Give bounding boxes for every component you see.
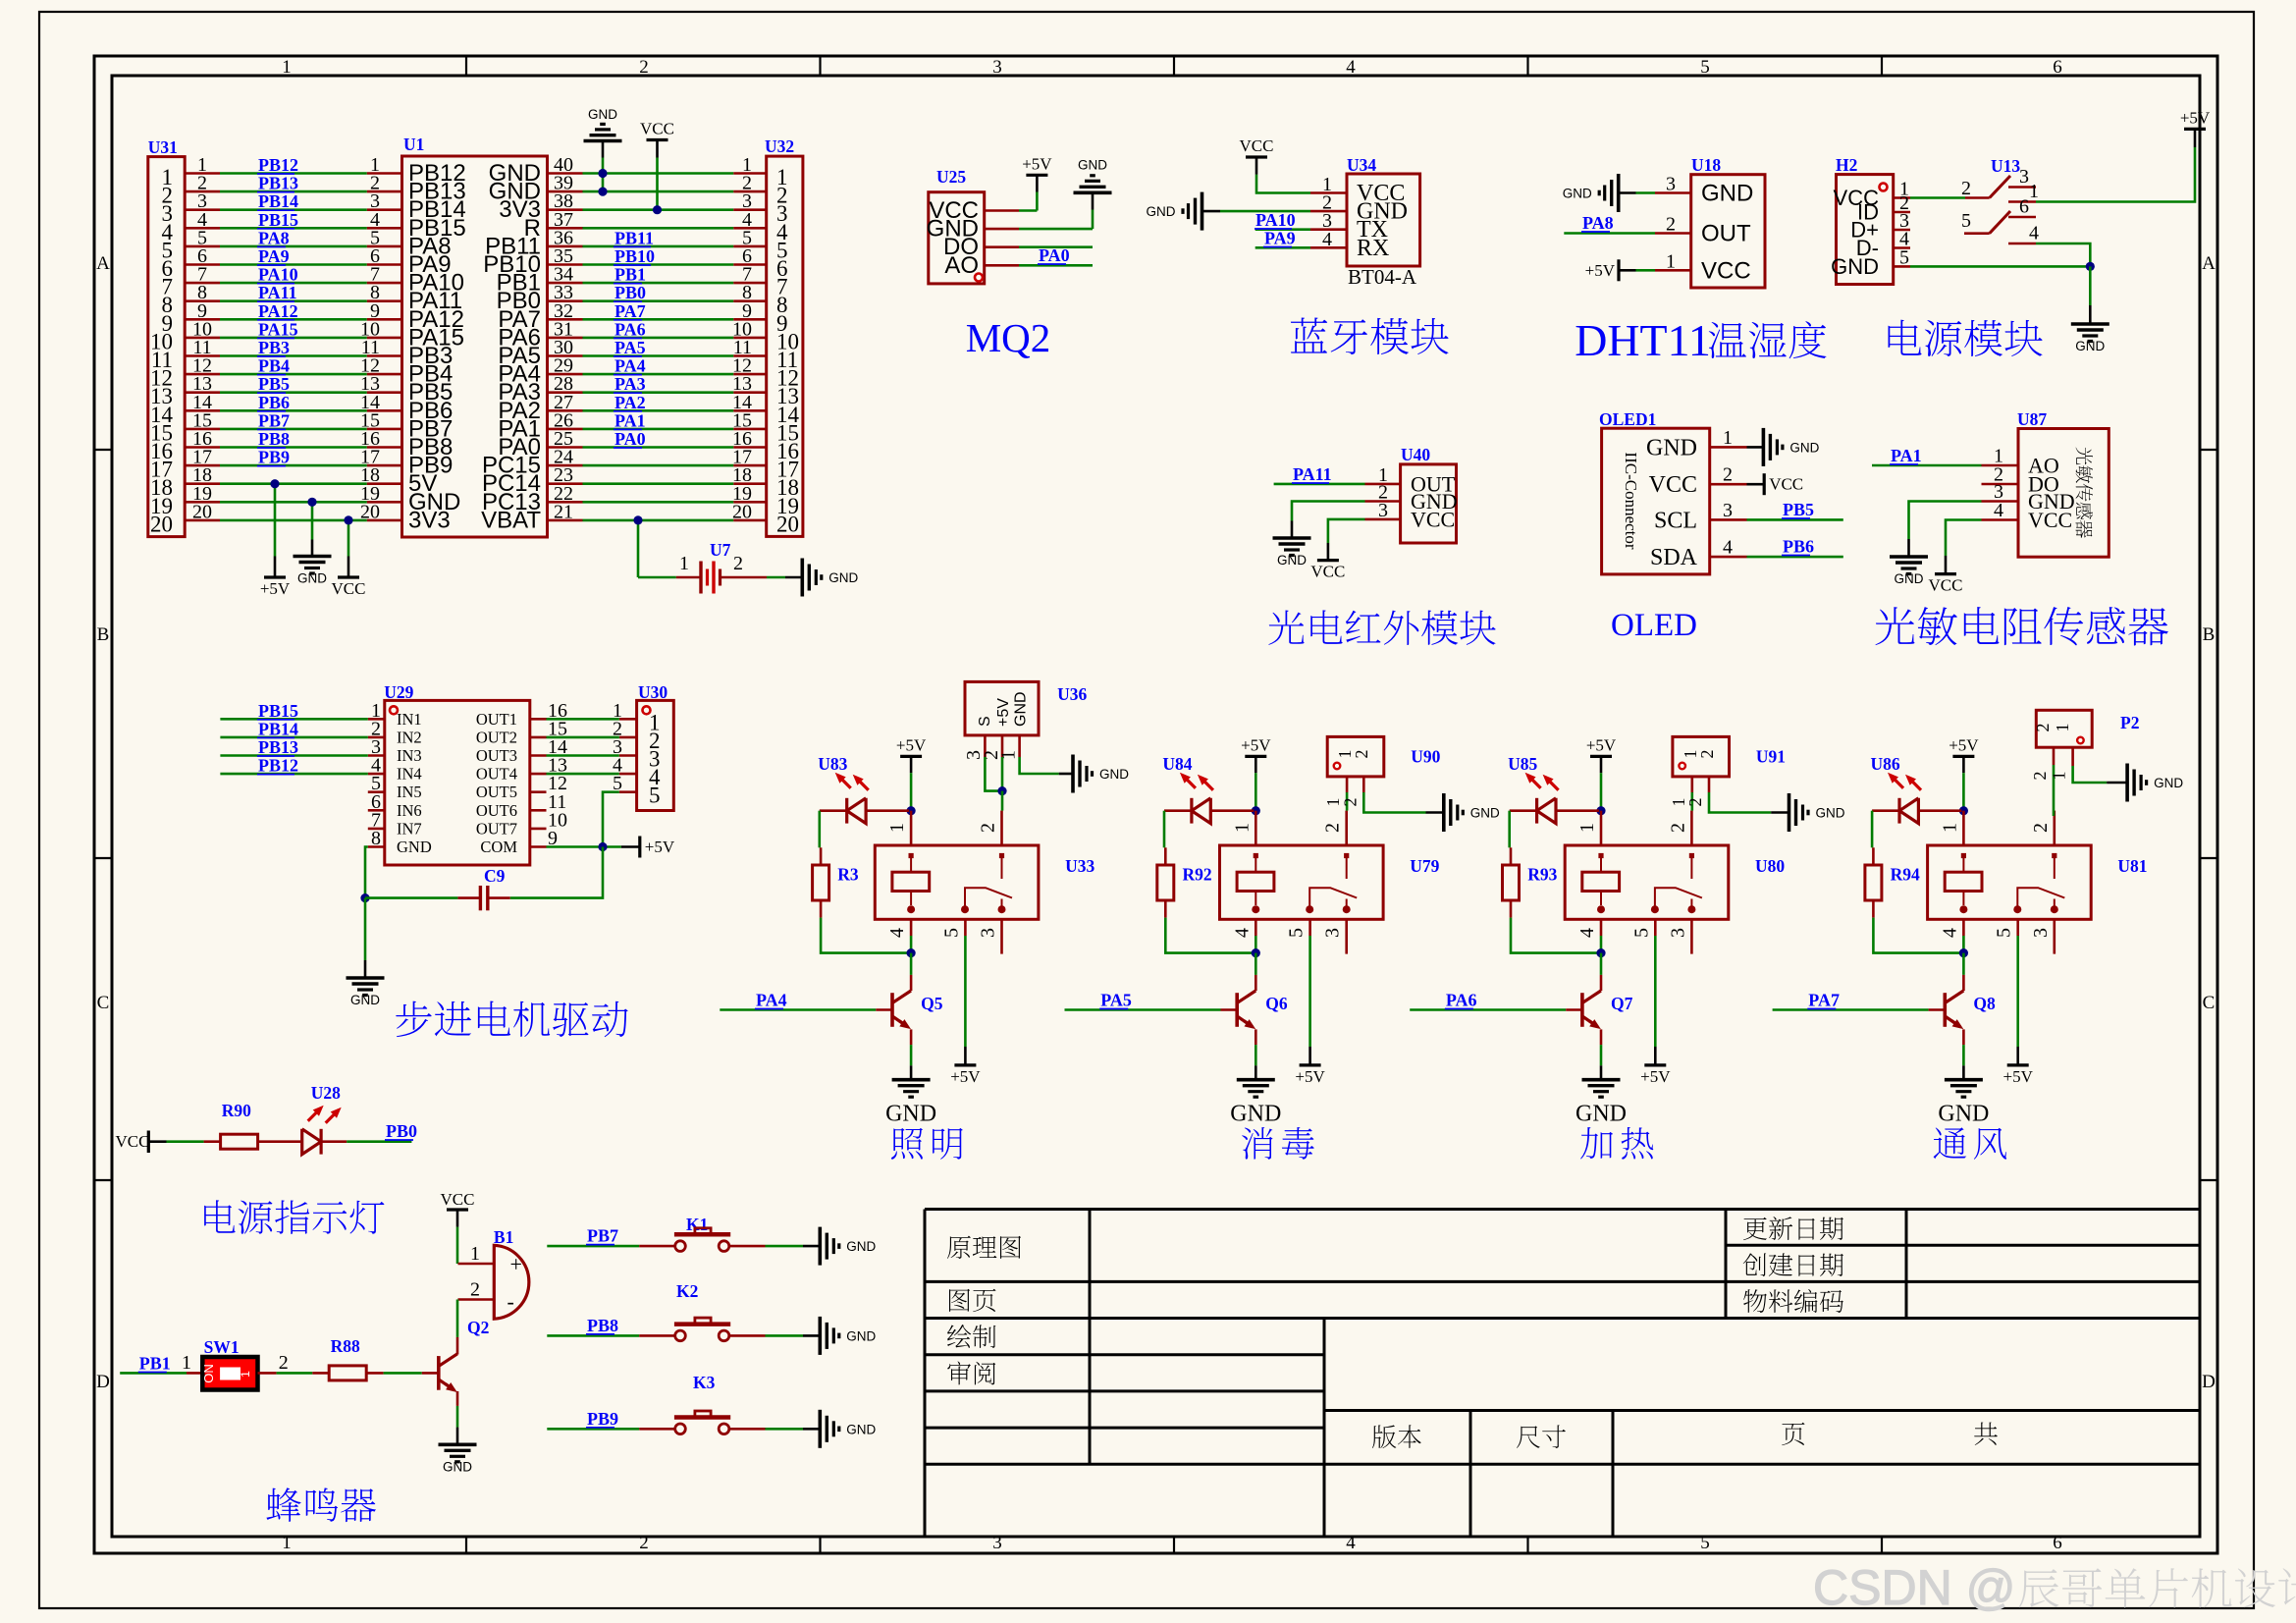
U87 pin 1 AO bbox=[1982, 464, 2019, 467]
LED anode lead bbox=[866, 809, 909, 812]
wire bbox=[547, 845, 621, 848]
ground bbox=[803, 1245, 820, 1248]
wire bbox=[1163, 811, 1166, 848]
power port VCC bbox=[647, 138, 668, 141]
svg-text:1: 1 bbox=[679, 553, 689, 574]
wire bbox=[456, 1406, 459, 1428]
U13 pin 6 bbox=[2008, 216, 2036, 219]
svg-text:PA10: PA10 bbox=[1255, 210, 1296, 230]
U31 pin 4 bbox=[185, 227, 220, 230]
svg-text:PA3: PA3 bbox=[614, 374, 646, 394]
svg-text:OUT7: OUT7 bbox=[476, 819, 517, 838]
power port VCC bbox=[1763, 473, 1766, 495]
svg-text:GND: GND bbox=[1575, 1102, 1627, 1127]
svg-text:OUT5: OUT5 bbox=[476, 783, 517, 801]
zone tick bbox=[465, 56, 467, 76]
U29 pin 11 OUT6 bbox=[530, 809, 547, 812]
svg-text:U1: U1 bbox=[403, 135, 424, 154]
svg-text:H2: H2 bbox=[1836, 155, 1857, 175]
relay U79 bbox=[1220, 845, 1384, 919]
relay contact bbox=[1001, 858, 1003, 879]
svg-text:3: 3 bbox=[1723, 500, 1733, 521]
U1 pin 3 PB14 bbox=[367, 208, 402, 211]
U1 pin 36 PB11 bbox=[548, 245, 583, 248]
zone tick bbox=[1881, 56, 1883, 76]
svg-text:GND: GND bbox=[588, 107, 617, 122]
wire bbox=[1001, 757, 1004, 791]
U29 pin 8 GND bbox=[368, 845, 385, 848]
svg-text:+5V: +5V bbox=[1585, 261, 1616, 280]
svg-text:+: + bbox=[510, 1252, 522, 1276]
svg-text:R88: R88 bbox=[331, 1336, 360, 1356]
svg-text:2: 2 bbox=[2033, 724, 2053, 732]
LED anode lead bbox=[1210, 809, 1254, 812]
svg-text:OLED1: OLED1 bbox=[1599, 409, 1656, 429]
U1 pin 7 PA10 bbox=[367, 282, 402, 285]
U18 pin 3 GND bbox=[1655, 191, 1691, 194]
wire bbox=[821, 918, 909, 953]
U29 pin 9 COM bbox=[530, 845, 547, 848]
svg-text:Q8: Q8 bbox=[1973, 994, 1996, 1013]
svg-text:-: - bbox=[507, 1289, 514, 1314]
svg-text:U79: U79 bbox=[1410, 856, 1439, 876]
U31 pin 17 bbox=[185, 464, 220, 467]
junction bbox=[653, 205, 662, 214]
svg-text:PB11: PB11 bbox=[614, 228, 654, 247]
ground bbox=[892, 1078, 931, 1082]
svg-text:BT04-A: BT04-A bbox=[1348, 265, 1417, 289]
svg-text:2: 2 bbox=[2030, 772, 2050, 781]
ground bbox=[1442, 793, 1446, 832]
relay pin 5 bbox=[964, 919, 967, 936]
svg-text:U91: U91 bbox=[1756, 747, 1786, 767]
U1 pin 37 R bbox=[548, 227, 583, 230]
U31 pin 15 bbox=[185, 428, 220, 431]
U31 pin 20 bbox=[185, 519, 220, 522]
svg-text:CSDN @: CSDN @ bbox=[1813, 1560, 2015, 1615]
U40 pin 2 GND bbox=[1365, 500, 1401, 503]
svg-text:20: 20 bbox=[192, 501, 212, 522]
power port +5V bbox=[1300, 1063, 1321, 1066]
LED anode lead bbox=[1556, 809, 1599, 812]
wire bbox=[1962, 936, 1965, 953]
U13 arm bbox=[1990, 211, 2010, 234]
svg-text:2: 2 bbox=[470, 1279, 480, 1301]
svg-text:P2: P2 bbox=[2120, 713, 2139, 732]
wire bbox=[1308, 936, 1311, 1047]
LED cathode lead bbox=[1164, 809, 1192, 812]
svg-text:3V3: 3V3 bbox=[408, 507, 451, 533]
sensor U18 (DHT11) bbox=[1691, 175, 1765, 288]
junction bbox=[633, 515, 642, 524]
wire bbox=[547, 754, 619, 757]
junction bbox=[360, 893, 369, 902]
U87 pin 3 GND bbox=[1982, 500, 2019, 503]
svg-text:U85: U85 bbox=[1508, 754, 1537, 774]
relay pin 4 bbox=[1962, 919, 1965, 936]
title block text 创建日期 bbox=[1743, 1253, 1843, 1276]
svg-text:U81: U81 bbox=[2117, 856, 2147, 876]
wire bbox=[910, 936, 913, 953]
title block text 页 bbox=[1782, 1423, 1804, 1445]
svg-text:4: 4 bbox=[1231, 928, 1253, 938]
svg-text:GND: GND bbox=[1277, 553, 1307, 568]
svg-text:PB13: PB13 bbox=[258, 174, 298, 193]
U32 pin 15 bbox=[733, 428, 767, 431]
U1 pin 10 PA15 bbox=[367, 337, 402, 340]
U1 pin 28 PA3 bbox=[548, 391, 583, 394]
wire bbox=[1328, 519, 1365, 543]
svg-text:1: 1 bbox=[1576, 823, 1598, 833]
power port +5V bbox=[1952, 755, 1974, 758]
svg-text:PA12: PA12 bbox=[258, 301, 298, 321]
U91 pin 1 bbox=[1691, 777, 1694, 792]
power port +5V bbox=[264, 575, 286, 578]
power port VCC bbox=[1935, 572, 1956, 575]
transistor Q8 bbox=[1944, 993, 1948, 1027]
svg-text:PB15: PB15 bbox=[258, 701, 298, 721]
H2 pin 3 D+ bbox=[1894, 229, 1910, 232]
wire bbox=[1872, 464, 1982, 467]
IC U29 bbox=[385, 700, 530, 865]
U1 pin 25 PA0 bbox=[548, 446, 583, 449]
svg-text:GND: GND bbox=[846, 1422, 876, 1436]
svg-text:GND: GND bbox=[1099, 767, 1129, 782]
svg-text:1: 1 bbox=[1939, 823, 1960, 833]
relay pin 2 lead bbox=[1000, 811, 1003, 845]
ground bbox=[1074, 191, 1112, 195]
U1 pin 34 PB1 bbox=[548, 282, 583, 285]
wire bbox=[1747, 518, 1843, 521]
svg-text:1: 1 bbox=[470, 1243, 480, 1265]
svg-text:MQ2: MQ2 bbox=[966, 315, 1051, 360]
lead bbox=[367, 1372, 384, 1375]
pin1 marker bbox=[1679, 763, 1685, 770]
U32 pin 10 bbox=[733, 337, 767, 340]
svg-text:OUT: OUT bbox=[1701, 221, 1751, 247]
svg-text:R92: R92 bbox=[1183, 865, 1212, 885]
wire bbox=[220, 263, 367, 266]
power port VCC bbox=[1317, 559, 1339, 562]
zone tick bbox=[1173, 56, 1175, 76]
svg-text:PA0: PA0 bbox=[614, 429, 646, 449]
svg-text:3: 3 bbox=[1322, 928, 1344, 938]
ground bbox=[2071, 322, 2109, 326]
title bbox=[1876, 607, 2168, 646]
wire bbox=[547, 773, 619, 776]
wire bbox=[2089, 266, 2092, 305]
U1 pin 17 PB9 bbox=[367, 464, 402, 467]
wire bbox=[2016, 936, 2019, 1047]
U1 pin 1 PB12 bbox=[367, 172, 402, 175]
wire bbox=[1600, 936, 1603, 953]
svg-text:GND: GND bbox=[846, 1239, 876, 1254]
svg-text:5: 5 bbox=[1961, 210, 1971, 232]
U29 pin 14 OUT3 bbox=[530, 754, 547, 757]
U32 pin 12 bbox=[733, 373, 767, 376]
U25 pin AO bbox=[985, 264, 1019, 267]
U32 pin 1 bbox=[733, 172, 767, 175]
title block text 更新日期 bbox=[1743, 1217, 1843, 1240]
svg-text:PB9: PB9 bbox=[587, 1409, 618, 1429]
svg-text:+5V: +5V bbox=[2003, 1067, 2034, 1086]
svg-text:GND: GND bbox=[297, 571, 327, 586]
U1 pin 4 PB15 bbox=[367, 227, 402, 230]
title bbox=[1291, 318, 1449, 355]
svg-text:U13: U13 bbox=[1991, 156, 2020, 176]
relay contact bbox=[1346, 858, 1348, 879]
lead bbox=[1962, 975, 1965, 991]
title block text 绘制 bbox=[947, 1325, 995, 1348]
svg-text:AO: AO bbox=[944, 252, 979, 279]
svg-text:3: 3 bbox=[992, 1533, 1002, 1553]
ground bbox=[294, 555, 332, 559]
svg-text:VCC: VCC bbox=[2028, 508, 2072, 532]
U1 pin 21 VBAT bbox=[548, 519, 583, 522]
ground bbox=[1059, 773, 1073, 776]
lead bbox=[876, 1008, 892, 1011]
relay U33 bbox=[875, 845, 1039, 919]
svg-text:2: 2 bbox=[1723, 464, 1733, 486]
svg-text:A: A bbox=[2202, 253, 2216, 274]
resistor R3 bbox=[813, 865, 829, 900]
wire bbox=[964, 936, 967, 1047]
U32 pin 3 bbox=[733, 208, 767, 211]
svg-text:PA7: PA7 bbox=[1808, 991, 1840, 1010]
svg-text:PA8: PA8 bbox=[258, 228, 290, 247]
svg-text:VCC: VCC bbox=[1701, 257, 1751, 284]
U1 pin 35 PB10 bbox=[548, 263, 583, 266]
svg-text:PB6: PB6 bbox=[1783, 537, 1814, 557]
lead bbox=[187, 1372, 202, 1375]
svg-text:5: 5 bbox=[1994, 928, 2015, 938]
power +5V bbox=[2016, 1047, 2019, 1065]
U1 pin 24 PC15 bbox=[548, 464, 583, 467]
U32 pin 7 bbox=[733, 282, 767, 285]
wire bbox=[910, 773, 913, 811]
power +5V bbox=[274, 557, 277, 578]
U13 pin 4 bbox=[2008, 243, 2036, 245]
U29 pin 2 IN2 bbox=[368, 736, 385, 739]
U32 pin 17 bbox=[733, 464, 767, 467]
svg-text:ON: ON bbox=[201, 1364, 216, 1383]
ground bbox=[1762, 428, 1766, 466]
power +5V bbox=[1308, 1047, 1311, 1065]
title block text 原理图 bbox=[947, 1236, 1021, 1259]
svg-text:U33: U33 bbox=[1065, 856, 1095, 876]
IC U1 bbox=[402, 156, 548, 537]
title block text 图页 bbox=[949, 1289, 996, 1312]
U32 pin 8 bbox=[733, 299, 767, 302]
ground bbox=[1273, 536, 1311, 540]
svg-text:R94: R94 bbox=[1891, 865, 1920, 885]
U87 pin 2 DO bbox=[1982, 483, 2019, 486]
svg-text:2: 2 bbox=[1961, 178, 1971, 199]
U31 pin 1 bbox=[185, 172, 220, 175]
wire bbox=[583, 227, 734, 230]
svg-text:VCC: VCC bbox=[640, 120, 674, 138]
ground bbox=[364, 960, 367, 978]
wire bbox=[1019, 245, 1093, 248]
wire bbox=[583, 337, 734, 340]
ground bbox=[800, 559, 804, 597]
U40 pin 3 VCC bbox=[1365, 518, 1401, 521]
wire bbox=[1600, 773, 1603, 811]
U29 pin 16 OUT1 bbox=[530, 718, 547, 721]
ground bbox=[1747, 446, 1764, 449]
svg-text:1: 1 bbox=[2029, 181, 2039, 202]
U31 pin 14 bbox=[185, 409, 220, 412]
svg-text:3: 3 bbox=[1666, 174, 1676, 195]
junction bbox=[598, 842, 607, 851]
wire bbox=[220, 373, 367, 376]
svg-text:K1: K1 bbox=[686, 1215, 708, 1234]
svg-text:OUT4: OUT4 bbox=[476, 765, 517, 784]
U40 pin 1 OUT bbox=[1365, 483, 1401, 486]
wire bbox=[1255, 246, 1310, 249]
wire bbox=[277, 1372, 313, 1375]
svg-text:U80: U80 bbox=[1755, 856, 1785, 876]
U1 pin 18 5V bbox=[367, 482, 402, 485]
svg-text:PB8: PB8 bbox=[258, 429, 290, 449]
wire bbox=[220, 227, 367, 230]
power port +5V bbox=[638, 837, 641, 858]
ground bbox=[1890, 555, 1928, 559]
svg-text:3: 3 bbox=[1378, 500, 1388, 521]
ground bbox=[1237, 1078, 1275, 1082]
junction bbox=[907, 948, 916, 957]
wire +5V drop bbox=[274, 484, 277, 557]
connector U36 bbox=[965, 681, 1039, 735]
ground bbox=[456, 1428, 459, 1445]
title block text 审阅 bbox=[947, 1361, 995, 1384]
svg-text:PA15: PA15 bbox=[258, 319, 298, 339]
power port +5V bbox=[954, 1063, 976, 1066]
U91 pin 2 bbox=[1708, 777, 1711, 792]
svg-text:IN6: IN6 bbox=[397, 801, 422, 820]
svg-text:PB7: PB7 bbox=[587, 1226, 618, 1246]
wire bbox=[583, 446, 734, 449]
svg-text:IN4: IN4 bbox=[397, 765, 422, 784]
wire bbox=[1564, 232, 1655, 235]
svg-text:+5V: +5V bbox=[950, 1067, 981, 1086]
svg-text:D: D bbox=[2202, 1372, 2216, 1392]
svg-text:U29: U29 bbox=[384, 682, 413, 702]
svg-text:PB0: PB0 bbox=[386, 1121, 417, 1141]
lead bbox=[257, 1140, 302, 1143]
U29 pin 7 IN7 bbox=[368, 828, 385, 831]
U32 pin 13 bbox=[733, 391, 767, 394]
connector U30 bbox=[637, 700, 674, 810]
wire bbox=[637, 520, 640, 577]
wire GND drop bbox=[311, 502, 314, 539]
svg-text:GND: GND bbox=[828, 570, 858, 585]
ground bbox=[910, 1065, 913, 1079]
svg-text:5: 5 bbox=[1899, 246, 1909, 268]
svg-text:GND: GND bbox=[1701, 181, 1753, 207]
relay pin 2 lead bbox=[2054, 811, 2056, 845]
OLED1 pin 2 VCC bbox=[1710, 483, 1747, 486]
ground bbox=[1962, 1065, 1965, 1079]
lead bbox=[456, 1337, 459, 1355]
junction bbox=[997, 786, 1006, 795]
wire bbox=[456, 1300, 459, 1337]
relay pin 5 bbox=[2016, 919, 2019, 936]
power VCC bbox=[1747, 483, 1765, 486]
wire bbox=[583, 282, 734, 285]
OLED1 pin 4 SDA bbox=[1710, 556, 1747, 559]
svg-text:K3: K3 bbox=[693, 1373, 716, 1392]
wire bbox=[220, 299, 367, 302]
wire bbox=[2073, 766, 2108, 783]
wire bbox=[120, 1372, 187, 1375]
relay pin 4 bbox=[1600, 919, 1603, 936]
wire bbox=[583, 501, 734, 504]
wire bbox=[220, 318, 367, 321]
svg-text:5: 5 bbox=[940, 928, 962, 938]
svg-text:Q7: Q7 bbox=[1611, 994, 1633, 1013]
power port +5V bbox=[1617, 259, 1620, 281]
svg-text:5: 5 bbox=[1700, 1533, 1710, 1553]
U1 pin 32 PA7 bbox=[548, 318, 583, 321]
LED cathode lead bbox=[820, 809, 847, 812]
svg-text:COM: COM bbox=[480, 838, 517, 856]
U29 pin 1 IN1 bbox=[368, 718, 385, 721]
svg-text:GND: GND bbox=[1938, 1102, 1989, 1127]
wire bbox=[583, 482, 734, 485]
zone tick bbox=[94, 449, 112, 451]
svg-text:D: D bbox=[96, 1372, 110, 1392]
svg-text:GND: GND bbox=[1816, 806, 1845, 821]
relay contact bbox=[2054, 858, 2056, 879]
wire bbox=[1910, 265, 2090, 268]
svg-text:GND: GND bbox=[1470, 806, 1500, 821]
svg-text:VCC: VCC bbox=[116, 1132, 150, 1151]
wire bbox=[583, 245, 734, 248]
relay armature bbox=[2017, 888, 2064, 907]
svg-text:U36: U36 bbox=[1057, 684, 1087, 704]
relay armature bbox=[1655, 888, 1702, 907]
relay armature bbox=[1309, 888, 1357, 907]
svg-text:+5V: +5V bbox=[1586, 735, 1617, 754]
junction bbox=[2086, 262, 2095, 271]
svg-text:6: 6 bbox=[2019, 196, 2029, 218]
U1 pin 13 PB5 bbox=[367, 391, 402, 394]
wire bbox=[583, 299, 734, 302]
U32 pin 4 bbox=[733, 227, 767, 230]
svg-text:20: 20 bbox=[732, 501, 752, 522]
ground bbox=[311, 540, 314, 557]
ground bbox=[1771, 811, 1789, 814]
section title bbox=[1242, 1127, 1314, 1160]
U1 pin 11 PB3 bbox=[367, 354, 402, 357]
U32 pin 20 bbox=[733, 519, 767, 522]
power +5V bbox=[1036, 175, 1039, 191]
svg-text:IN5: IN5 bbox=[397, 783, 422, 801]
svg-text:PB12: PB12 bbox=[258, 155, 298, 175]
svg-text:VCC: VCC bbox=[1310, 563, 1345, 581]
relay pin 3 bbox=[2054, 919, 2056, 953]
zone tick bbox=[1526, 56, 1528, 76]
U1 pin 30 PA5 bbox=[548, 354, 583, 357]
svg-text:2: 2 bbox=[1666, 214, 1676, 236]
svg-text:PA6: PA6 bbox=[614, 319, 646, 339]
ground bbox=[803, 1428, 820, 1431]
resistor R92 bbox=[1157, 865, 1174, 900]
wire bbox=[638, 576, 676, 579]
svg-text:RX: RX bbox=[1357, 236, 1389, 261]
resistor R94 bbox=[1865, 865, 1882, 900]
